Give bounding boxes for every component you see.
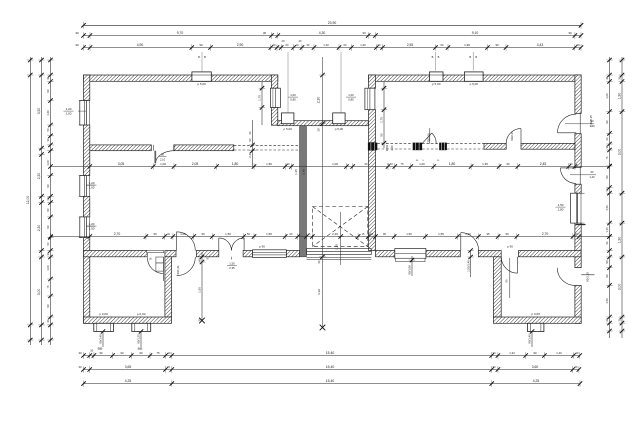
- bottom wall seg2: [165, 251, 176, 257]
- svg-text:1,15: 1,15: [605, 227, 609, 233]
- svg-text:1,00: 1,00: [180, 232, 186, 236]
- svg-text:1,35: 1,35: [482, 162, 488, 166]
- svg-text:p 5,00: p 5,00: [470, 82, 479, 86]
- svg-text:90: 90: [495, 43, 499, 47]
- svg-text:30: 30: [75, 31, 79, 35]
- svg-text:1,50/1,40: 1,50/1,40: [466, 260, 470, 272]
- svg-text:1,00: 1,00: [465, 232, 471, 236]
- window WR1 recess left: [270, 88, 280, 107]
- svg-text:4,25: 4,25: [125, 379, 132, 383]
- dim left col2: [37, 57, 45, 345]
- svg-text:90: 90: [506, 162, 510, 166]
- svg-text:23,90: 23,90: [328, 21, 337, 25]
- door D_A3 interior wall A right: [506, 129, 521, 144]
- svg-text:B|B: B|B: [138, 347, 143, 351]
- outer wall top-left span: [84, 75, 278, 81]
- hall south glazing: [307, 248, 372, 250]
- svg-text:2,05: 2,05: [192, 162, 199, 166]
- svg-text:1,00: 1,00: [89, 227, 95, 231]
- svg-text:B: B: [438, 55, 440, 59]
- svg-text:30: 30: [317, 128, 321, 132]
- svg-text:1,20: 1,20: [323, 43, 329, 47]
- svg-text:1,20: 1,20: [66, 107, 72, 111]
- hall threshold lines: [307, 256, 372, 258]
- svg-text:1,40/2,35: 1,40/2,35: [589, 115, 593, 127]
- svg-text:30: 30: [576, 43, 580, 47]
- svg-text:75: 75: [156, 351, 160, 355]
- svg-text:p 0,00: p 0,00: [99, 312, 108, 316]
- svg-text:2,40: 2,40: [248, 152, 252, 158]
- svg-text:90: 90: [46, 89, 50, 93]
- svg-text:1,55: 1,55: [438, 232, 444, 236]
- svg-text:1,80: 1,80: [449, 162, 456, 166]
- outer wall top-right span: [369, 75, 582, 81]
- svg-text:1,00: 1,00: [46, 265, 50, 271]
- window W4 outer sill: [576, 224, 586, 226]
- svg-text:p 5,00: p 5,00: [197, 82, 206, 86]
- chimney block B1: [192, 72, 211, 81]
- chimney block B3: [464, 72, 483, 81]
- lower-left room south wall: [84, 317, 172, 323]
- svg-text:9,70: 9,70: [177, 31, 184, 35]
- interior wall A left seg2: [174, 145, 234, 151]
- door D_B1 arc below: [177, 257, 196, 276]
- chimney block B2: [430, 72, 444, 81]
- outer wall left seg3: [84, 196, 90, 217]
- svg-text:2,40: 2,40: [390, 145, 394, 151]
- door D_B3: [460, 233, 462, 251]
- svg-text:2,30: 2,30: [317, 97, 321, 104]
- svg-text:1,50: 1,50: [266, 162, 272, 166]
- bottom wall seg9: [518, 251, 581, 257]
- svg-text:30: 30: [317, 260, 321, 264]
- lower-right room south wall: [493, 317, 581, 323]
- svg-text:p 90: p 90: [507, 244, 513, 248]
- svg-text:30: 30: [75, 43, 79, 47]
- outer wall right seg1: [575, 75, 581, 113]
- svg-text:90/1,40: 90/1,40: [176, 265, 180, 274]
- svg-text:3,60: 3,60: [532, 365, 539, 369]
- recess wall left lower: [271, 108, 277, 126]
- door D_A2 interior wall A right: [429, 128, 431, 143]
- svg-text:2,35: 2,35: [229, 266, 235, 270]
- outer wall left seg4: [84, 238, 90, 324]
- svg-text:2,20: 2,20: [332, 232, 338, 236]
- svg-text:1,90: 1,90: [618, 93, 622, 100]
- interior wall A left seg1: [90, 145, 152, 151]
- svg-text:1,20: 1,20: [46, 110, 50, 116]
- dim chain wall A left: [248, 120, 256, 167]
- outer wall right seg2: [575, 134, 581, 168]
- dim chain chimney C1: [99, 329, 107, 347]
- recess wall left upper: [271, 75, 277, 88]
- svg-text:1,00: 1,00: [348, 93, 354, 97]
- bottom wall seg5: [286, 251, 299, 257]
- svg-text:3,00: 3,00: [37, 289, 41, 296]
- dim chain door south: [466, 248, 474, 277]
- svg-text:3,50: 3,50: [37, 108, 41, 115]
- svg-text:B: B: [432, 55, 434, 59]
- dim bottom row3: [81, 379, 582, 387]
- svg-text:90/1,98: 90/1,98: [408, 265, 412, 275]
- bottom wall seg4: [243, 251, 252, 257]
- riser lines to top: [287, 52, 289, 113]
- outer wall right seg4: [575, 223, 581, 268]
- sills left wall: [79, 100, 82, 102]
- svg-text:90/2,10: 90/2,10: [586, 272, 590, 282]
- svg-text:90: 90: [201, 232, 205, 236]
- bottom wall seg6: [376, 251, 395, 257]
- chimney block C3: [528, 323, 544, 331]
- dim left col3: [46, 57, 54, 345]
- dim interior chain A: [48, 162, 611, 170]
- svg-text:p 0,00: p 0,00: [532, 312, 541, 316]
- svg-text:4,25: 4,25: [533, 379, 540, 383]
- lower-left room east wall: [165, 257, 172, 317]
- svg-text:90/1,40: 90/1,40: [99, 334, 103, 344]
- svg-text:1,50: 1,50: [225, 232, 231, 236]
- dim chain window WB2: [408, 256, 416, 276]
- svg-text:1,00: 1,00: [332, 162, 338, 166]
- svg-text:90: 90: [533, 351, 537, 355]
- dim top row3: [75, 43, 583, 51]
- recess ledge wall: [278, 121, 368, 126]
- svg-text:1,80: 1,80: [558, 208, 564, 212]
- svg-text:1,34: 1,34: [509, 351, 515, 355]
- bottom wall seg7: [426, 251, 460, 257]
- window W2 left wall: [80, 176, 87, 197]
- svg-text:1,50: 1,50: [558, 203, 564, 207]
- svg-text:90: 90: [46, 304, 50, 308]
- svg-text:1,20: 1,20: [89, 181, 95, 185]
- chimney wall dark bar: [300, 127, 307, 257]
- bottom wall seg8: [478, 251, 501, 257]
- svg-text:90: 90: [99, 351, 103, 355]
- recess pier P2: [333, 113, 345, 124]
- svg-text:1,50: 1,50: [605, 298, 609, 304]
- svg-text:4,30: 4,30: [319, 31, 326, 35]
- svg-text:p 0,00: p 0,00: [137, 312, 146, 316]
- svg-text:1,90: 1,90: [618, 237, 622, 244]
- dim top row1: [81, 21, 583, 29]
- dim chain chimney C3: [528, 329, 536, 347]
- window W4 right wall: [571, 193, 578, 223]
- window W3 left wall: [80, 217, 87, 238]
- recess wall right mid: [369, 110, 376, 143]
- svg-text:2,70: 2,70: [114, 232, 121, 236]
- bottom wall seg1: [84, 251, 148, 257]
- svg-text:90: 90: [153, 232, 157, 236]
- svg-text:90: 90: [605, 120, 609, 124]
- svg-text:90: 90: [120, 351, 124, 355]
- svg-text:30: 30: [362, 31, 366, 35]
- svg-text:p 5,00: p 5,00: [335, 127, 344, 131]
- svg-text:B: B: [198, 55, 200, 59]
- svg-text:90: 90: [505, 232, 509, 236]
- svg-text:12,00: 12,00: [26, 196, 30, 205]
- svg-text:90: 90: [605, 274, 609, 278]
- svg-text:15,40: 15,40: [326, 379, 335, 383]
- svg-text:1,50: 1,50: [229, 261, 235, 265]
- svg-text:30|90: 30|90: [385, 144, 389, 151]
- svg-text:3,65: 3,65: [125, 365, 132, 369]
- dim chain recess left: [258, 82, 266, 125]
- svg-text:2,30: 2,30: [37, 225, 41, 232]
- chimney block C1: [94, 323, 114, 331]
- window WR2 recess right: [365, 88, 375, 110]
- outer wall left seg2: [84, 125, 90, 176]
- svg-text:90: 90: [139, 351, 143, 355]
- svg-text:1,75: 1,75: [258, 95, 262, 101]
- outer wall right seg5: [575, 285, 581, 323]
- svg-text:95: 95: [486, 232, 490, 236]
- dim chain chimney C2: [137, 329, 145, 347]
- svg-text:3,00: 3,00: [618, 284, 622, 291]
- svg-text:1,20: 1,20: [89, 222, 95, 226]
- dim interior chain B: [48, 232, 611, 240]
- svg-text:0,85: 0,85: [348, 98, 354, 102]
- svg-text:1,80: 1,80: [232, 162, 239, 166]
- window W1 left wall: [80, 101, 87, 125]
- dim bottom row1: [78, 351, 581, 359]
- svg-text:4,43: 4,43: [537, 43, 544, 47]
- axis line center recess: [322, 57, 324, 328]
- svg-text:15,40: 15,40: [326, 365, 335, 369]
- svg-text:9,10: 9,10: [472, 31, 479, 35]
- window WB2 bottom wall with sill: [395, 249, 426, 259]
- svg-text:1,20: 1,20: [360, 43, 366, 47]
- svg-text:2,70: 2,70: [542, 232, 549, 236]
- svg-text:1,66: 1,66: [198, 287, 202, 293]
- pier row A p2: [413, 143, 422, 151]
- wall A dashed continuation left: [234, 144, 300, 146]
- pier row A p3: [439, 143, 447, 151]
- svg-text:p 5,00: p 5,00: [432, 82, 441, 86]
- wall A dashed continuation right: [377, 143, 412, 145]
- dim right col2: [618, 57, 626, 338]
- svg-text:1,75: 1,75: [380, 117, 384, 123]
- svg-text:90/2,35: 90/2,35: [510, 131, 514, 141]
- door D_A1 interior wall A: [153, 145, 155, 151]
- svg-text:p 5,00: p 5,00: [284, 127, 293, 131]
- svg-text:3,05: 3,05: [118, 162, 125, 166]
- bottom wall seg3: [196, 251, 219, 257]
- door D_R2 right wall: [579, 167, 581, 184]
- svg-text:1,00: 1,00: [605, 93, 609, 99]
- svg-text:90: 90: [46, 184, 50, 188]
- dim top row2: [75, 31, 583, 39]
- svg-text:1,40: 1,40: [556, 351, 562, 355]
- svg-text:1,00: 1,00: [290, 93, 296, 97]
- svg-text:1,50: 1,50: [406, 232, 412, 236]
- door D_R3 right wall lower-right room: [557, 268, 575, 286]
- svg-text:30: 30: [78, 351, 82, 355]
- svg-text:1,00: 1,00: [66, 112, 72, 116]
- chimney block C2: [132, 323, 151, 331]
- interior wall A right seg1: [484, 143, 506, 149]
- svg-text:3,00: 3,00: [618, 149, 622, 156]
- svg-text:2,40: 2,40: [302, 169, 306, 175]
- dim left col1: [26, 57, 34, 345]
- door D_R1 right wall: [579, 113, 581, 133]
- svg-text:1,70: 1,70: [387, 162, 393, 166]
- svg-text:90: 90: [46, 225, 50, 229]
- svg-text:1,00: 1,00: [89, 186, 95, 190]
- pier row A p1: [368, 143, 377, 151]
- lower-right room west wall: [493, 257, 501, 317]
- dashed void box: [312, 207, 367, 247]
- svg-text:90/1,35: 90/1,35: [137, 334, 141, 344]
- axis line bottom short: [340, 212, 342, 265]
- interior wall A right seg2: [521, 143, 575, 149]
- svg-text:3,30: 3,30: [317, 289, 321, 295]
- svg-text:90: 90: [605, 260, 609, 264]
- dim chain corridor: [198, 252, 206, 321]
- window WB1 bottom wall: [253, 250, 287, 258]
- svg-text:1,40: 1,40: [589, 175, 595, 179]
- svg-text:0,85: 0,85: [290, 98, 296, 102]
- svg-text:75/2,10: 75/2,10: [427, 133, 431, 143]
- double door D_B2: [218, 238, 220, 251]
- svg-text:2,45: 2,45: [540, 162, 547, 166]
- svg-text:1,00: 1,00: [46, 160, 50, 166]
- svg-text:90: 90: [199, 43, 203, 47]
- dim bottom row2: [78, 365, 581, 373]
- svg-text:B: B: [204, 55, 206, 59]
- svg-text:1,90: 1,90: [464, 43, 470, 47]
- svg-text:2,20: 2,20: [335, 244, 339, 250]
- svg-text:15,40: 15,40: [326, 351, 335, 355]
- svg-text:90/1,40: 90/1,40: [528, 334, 532, 344]
- svg-text:90: 90: [605, 175, 609, 179]
- svg-text:1,50: 1,50: [266, 232, 272, 236]
- svg-text:B: B: [469, 55, 471, 59]
- svg-text:1,00: 1,00: [419, 162, 425, 166]
- svg-text:2,55: 2,55: [407, 43, 413, 47]
- svg-text:30: 30: [78, 365, 82, 369]
- svg-text:1,50: 1,50: [605, 205, 609, 211]
- svg-text:4,90: 4,90: [137, 43, 144, 47]
- dim chain recess right: [380, 82, 388, 148]
- svg-text:30: 30: [568, 31, 572, 35]
- door D_B4 lower-right room: [501, 257, 517, 273]
- hall east wall: [369, 150, 376, 250]
- svg-text:B: B: [475, 55, 477, 59]
- door D_B1 arc above: [176, 232, 178, 251]
- svg-text:2,30: 2,30: [37, 173, 41, 180]
- svg-text:2,10: 2,10: [160, 157, 166, 161]
- outer wall left seg1: [84, 75, 90, 101]
- outer wall right seg3: [575, 184, 581, 193]
- recess wall right upper: [369, 75, 376, 88]
- svg-text:2,90: 2,90: [237, 43, 244, 47]
- svg-text:p 90: p 90: [259, 244, 265, 248]
- svg-text:B|B: B|B: [98, 347, 103, 351]
- door D_LL1 lower-left room: [147, 251, 164, 253]
- dim right col1: [605, 57, 613, 338]
- svg-text:30: 30: [263, 31, 267, 35]
- svg-text:1,00: 1,00: [160, 162, 166, 166]
- svg-text:90: 90: [380, 133, 384, 137]
- recess pier P1: [282, 113, 294, 124]
- svg-text:1,35: 1,35: [294, 169, 298, 175]
